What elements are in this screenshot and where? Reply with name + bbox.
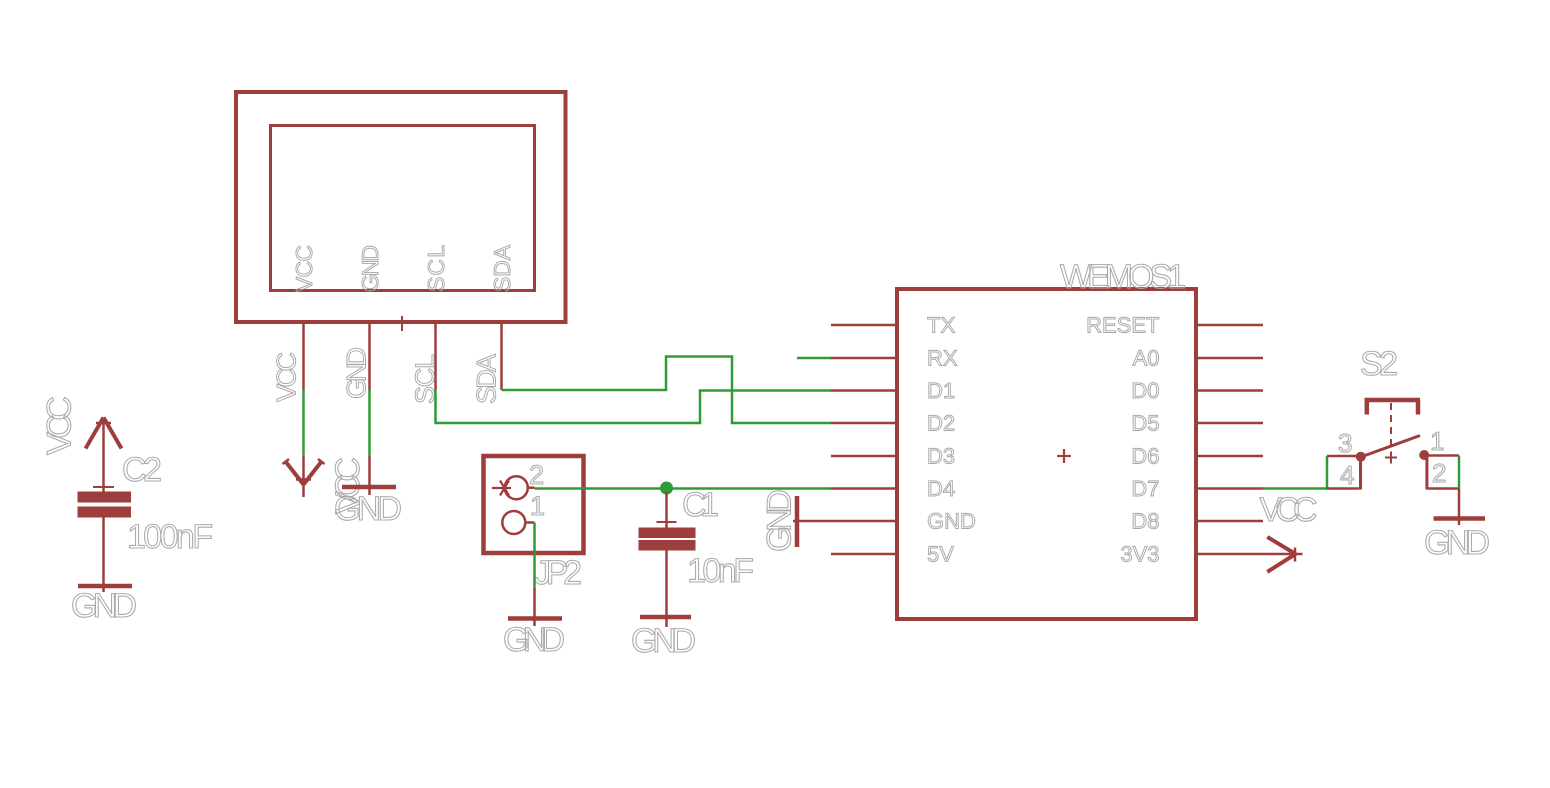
switch S2 pin 1 — [1427, 454, 1459, 457]
svg-text:2: 2 — [1432, 458, 1446, 488]
wire D7 net to switch S2 — [1263, 456, 1327, 489]
display module U1 outer frame — [236, 92, 566, 322]
connector JP2 box — [484, 456, 584, 553]
svg-text:D5: D5 — [1131, 411, 1159, 436]
display pin GND stub — [368, 324, 371, 390]
svg-text:D2: D2 — [927, 411, 955, 436]
svg-text:1: 1 — [530, 491, 545, 521]
svg-text:VCC: VCC — [291, 245, 317, 292]
JP2 pin 2 pad circle — [505, 476, 528, 499]
svg-text:1: 1 — [1430, 426, 1444, 456]
wire RX stub — [797, 357, 831, 360]
svg-text:GND: GND — [761, 489, 799, 552]
svg-text:GND: GND — [1424, 524, 1490, 562]
WEMOS1 origin cross — [1057, 449, 1071, 463]
ground symbol under display GND — [342, 456, 396, 495]
WEMOS pin RESET stub — [1196, 324, 1263, 327]
svg-text:GND: GND — [334, 490, 402, 528]
svg-text:RX: RX — [927, 346, 958, 371]
ground symbol below C1 — [640, 615, 691, 620]
WEMOS pin D4 stub — [831, 487, 897, 490]
svg-text:2: 2 — [529, 460, 544, 490]
svg-text:3: 3 — [1338, 428, 1352, 458]
JP2 pin 1 stub — [525, 521, 534, 524]
svg-text:SDA: SDA — [489, 244, 515, 292]
WEMOS pin RX stub — [831, 357, 897, 360]
svg-text:D0: D0 — [1131, 378, 1159, 403]
svg-text:A0: A0 — [1133, 346, 1160, 371]
WEMOS pin D6 stub — [1196, 455, 1263, 458]
display origin mark — [401, 316, 403, 331]
display module U1 inner frame — [271, 126, 535, 291]
svg-text:JP2: JP2 — [534, 554, 582, 592]
JP2 pin 2 origin cross — [492, 481, 511, 496]
svg-text:S2: S2 — [1360, 345, 1398, 383]
svg-text:SDA: SDA — [472, 354, 502, 404]
WEMOS pin GND stub — [831, 520, 897, 523]
svg-text:D4: D4 — [927, 476, 955, 501]
WEMOS pin D7 stub — [1196, 487, 1263, 490]
switch S2 blade — [1361, 436, 1420, 458]
switch S2 pin 4 — [1327, 487, 1359, 490]
WEMOS1 module box — [897, 289, 1196, 619]
WEMOS pin D8 stub — [1196, 520, 1263, 523]
supply VCC arrow (pointing up) at C2 — [86, 418, 122, 449]
junction dot node D4 — [660, 482, 673, 495]
svg-text:D6: D6 — [1131, 444, 1159, 469]
svg-text:GND: GND — [503, 621, 565, 659]
svg-text:VCC: VCC — [272, 352, 302, 402]
svg-text:D8: D8 — [1131, 509, 1159, 534]
svg-text:VCC: VCC — [41, 396, 79, 455]
WEMOS pin 3V3 stub — [1196, 553, 1263, 556]
capacitor C2 — [78, 420, 131, 592]
svg-text:RESET: RESET — [1086, 313, 1159, 338]
switch S2 right contact dot — [1419, 450, 1429, 460]
supply VCC arrow (pointing right) at 3V3 — [1263, 537, 1303, 572]
WEMOS pin TX stub — [831, 324, 897, 327]
WEMOS pin D5 stub — [1196, 422, 1263, 425]
svg-text:TX: TX — [927, 313, 955, 338]
switch S2 actuator dashed link — [1390, 403, 1392, 451]
ground symbol below C2 — [78, 584, 132, 589]
svg-text:GND: GND — [357, 245, 383, 292]
svg-text:5V: 5V — [927, 542, 954, 567]
svg-text:D1: D1 — [927, 378, 955, 403]
JP2 pin 1 pad circle — [502, 511, 525, 534]
svg-text:3V3: 3V3 — [1120, 542, 1159, 567]
svg-text:GND: GND — [927, 509, 976, 534]
svg-text:GND: GND — [71, 587, 137, 625]
WEMOS pin 5V stub — [831, 553, 897, 556]
wire GND net — [368, 390, 371, 456]
svg-text:D3: D3 — [927, 444, 955, 469]
capacitor C1 — [639, 492, 695, 627]
svg-text:GND: GND — [342, 347, 372, 399]
wire JP2 pin1 to ground — [533, 523, 536, 589]
svg-text:SCL: SCL — [423, 245, 449, 292]
wire SDA net to D2 — [502, 357, 832, 424]
switch S2 actuator bracket — [1365, 400, 1421, 415]
display pin SDA stub — [500, 324, 503, 390]
WEMOS pin A0 stub — [1196, 357, 1263, 360]
WEMOS pin D0 stub — [1196, 389, 1263, 392]
ground symbol below JP2 — [508, 588, 562, 626]
svg-text:4: 4 — [1340, 460, 1354, 490]
svg-text:D7: D7 — [1131, 476, 1159, 501]
switch S2 origin cross — [1385, 452, 1397, 464]
WEMOS pin D2 stub — [831, 422, 897, 425]
svg-text:GND: GND — [631, 622, 696, 660]
svg-text:C2: C2 — [122, 451, 162, 489]
ground symbol below S2 — [1434, 489, 1486, 526]
wire VCC net — [302, 390, 305, 456]
svg-text:10nF: 10nF — [687, 552, 754, 590]
ground symbol at WEMOS GND pin (rotated) — [793, 496, 831, 547]
svg-text:VCC: VCC — [1260, 491, 1318, 529]
display pin VCC stub — [302, 324, 305, 390]
svg-text:WEMOS1: WEMOS1 — [1060, 258, 1186, 296]
switch S2 pin 3 — [1327, 455, 1359, 458]
JP2 pin 2 stub — [528, 486, 535, 489]
switch S2 right contact bar — [1425, 455, 1428, 490]
display pin SCL stub — [434, 324, 437, 390]
switch S2 left contact bar — [1359, 455, 1362, 490]
wire D4 net (JP2 pin2 to WEMOS D4) — [535, 487, 832, 490]
svg-text:C1: C1 — [682, 486, 719, 524]
supply VCC arrow (pointing down) — [283, 456, 325, 497]
wire SCL net to D1 — [436, 390, 832, 423]
switch S2 pin 2 — [1427, 487, 1459, 490]
WEMOS pin D3 stub — [831, 455, 897, 458]
svg-text:100nF: 100nF — [127, 518, 213, 556]
WEMOS pin D1 stub — [831, 389, 897, 392]
switch S2 left contact dot — [1356, 452, 1366, 462]
wire S2 right side — [1458, 456, 1461, 489]
